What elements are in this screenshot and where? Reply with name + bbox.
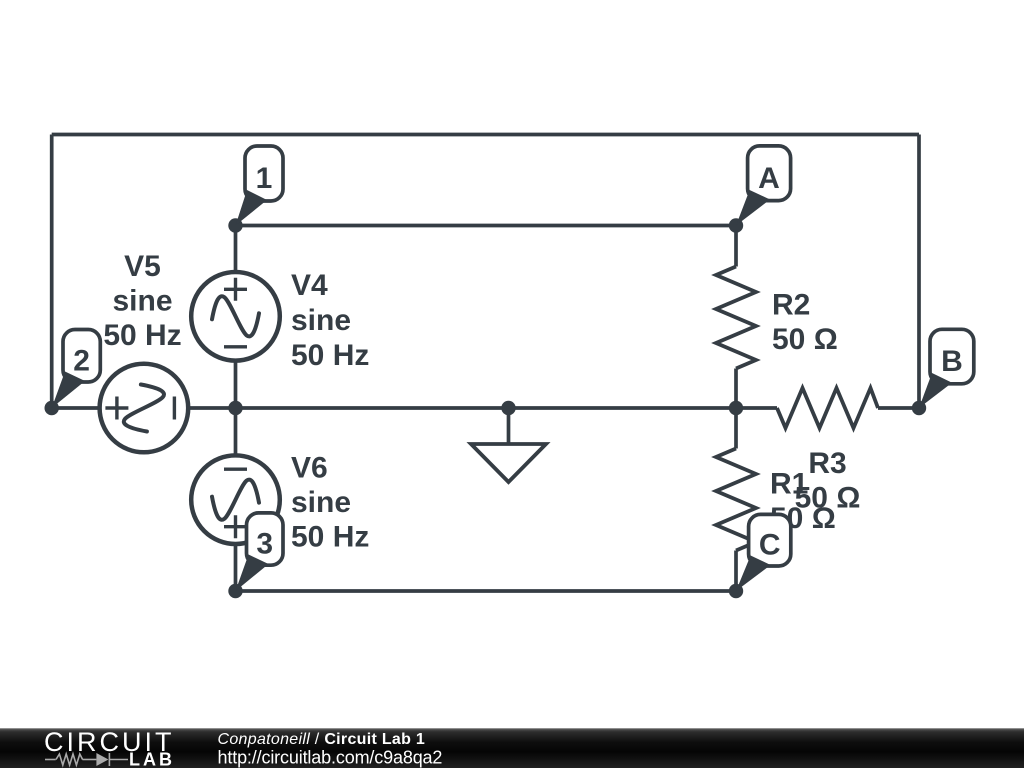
node tag C	[736, 514, 791, 591]
svg-text:Conpatoneill / Circuit Lab 1: Conpatoneill / Circuit Lab 1	[218, 731, 426, 748]
svg-text:http://circuitlab.com/c9a8qa2: http://circuitlab.com/c9a8qa2	[218, 748, 443, 768]
svg-text:A: A	[758, 162, 780, 195]
node dot ground	[501, 401, 515, 415]
wire bottom	[236, 589, 737, 593]
node dot C	[729, 584, 743, 598]
voltage source V4	[191, 272, 280, 361]
footer bar	[0, 728, 1024, 768]
svg-text:sine: sine	[291, 304, 351, 337]
wire right side	[917, 135, 921, 409]
node dot A	[729, 218, 743, 232]
node tag B	[919, 329, 974, 408]
node dot B	[912, 401, 926, 415]
node dot 2	[45, 401, 59, 415]
svg-text:R3: R3	[808, 447, 846, 480]
svg-text:50 Hz: 50 Hz	[291, 521, 369, 554]
svg-text:3: 3	[256, 528, 273, 561]
node tag 1	[236, 146, 284, 226]
resistor R3	[777, 388, 878, 428]
label R2	[772, 289, 838, 357]
node tag 2	[52, 330, 101, 409]
svg-text:V4: V4	[291, 269, 328, 302]
svg-text:50 Hz: 50 Hz	[103, 319, 181, 352]
node dot V5-V6 junction	[228, 401, 242, 415]
wire top	[52, 133, 919, 137]
svg-text:R2: R2	[772, 289, 810, 322]
svg-text:1: 1	[256, 162, 273, 195]
node dot R junction	[729, 401, 743, 415]
svg-text:LAB: LAB	[129, 750, 175, 768]
label R3	[795, 447, 861, 515]
wire R1 stubs	[734, 408, 738, 591]
svg-text:50 Ω: 50 Ω	[772, 323, 838, 356]
logo wire glyph	[45, 753, 128, 766]
svg-text:C: C	[759, 529, 781, 562]
voltage source V5	[100, 364, 189, 453]
svg-text:50 Hz: 50 Hz	[291, 339, 369, 372]
node dot 3	[228, 584, 242, 598]
label V5	[103, 250, 181, 352]
svg-text:sine: sine	[112, 285, 172, 318]
wire node1 to nodeA	[236, 224, 737, 228]
node tag A	[736, 146, 791, 226]
wire left side	[50, 135, 54, 409]
svg-text:B: B	[941, 345, 963, 378]
svg-text:50 Ω: 50 Ω	[795, 482, 861, 515]
svg-text:2: 2	[73, 344, 90, 377]
wire V6 branch	[234, 408, 238, 591]
voltage source V6	[191, 455, 280, 544]
resistor R2	[716, 267, 756, 369]
svg-text:V6: V6	[291, 452, 328, 485]
node dot 1	[228, 218, 242, 232]
wire V5 branch	[52, 406, 236, 410]
svg-text:sine: sine	[291, 486, 351, 519]
ground	[471, 408, 546, 482]
label R1	[770, 468, 836, 536]
wire V4 branch	[234, 226, 238, 409]
wire R3 stubs	[736, 406, 919, 410]
resistor R1	[716, 449, 756, 551]
node tag 3	[236, 513, 284, 591]
svg-text:V5: V5	[124, 250, 161, 283]
wire R2 stubs	[734, 226, 738, 409]
label V4	[291, 269, 369, 372]
label V6	[291, 452, 369, 554]
wire middle	[236, 406, 737, 410]
